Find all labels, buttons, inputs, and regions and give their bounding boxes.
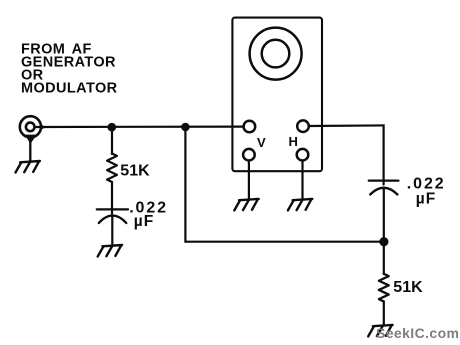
node: junction J-C (C2/R2): [379, 237, 388, 246]
label: .022 uF (C2): [407, 175, 446, 207]
wire: V ground terminal to ground: [248, 161, 250, 200]
svg-text:51K: 51K: [120, 162, 150, 179]
terminal: V ground: [243, 149, 255, 161]
wire: junction to R2: [383, 242, 385, 274]
terminal: H ground: [297, 149, 309, 161]
wire: R1 to C1: [111, 182, 113, 214]
svg-text:µF: µF: [134, 213, 154, 230]
terminal: V input: [244, 121, 256, 133]
ground below V terminal: [234, 199, 258, 211]
label: .022 uF (C1): [129, 200, 168, 231]
svg-text:µF: µF: [416, 191, 436, 208]
CRT screen outer circle: [250, 28, 302, 80]
wire: junction to R1: [111, 127, 113, 154]
wire: C2 to junction: [383, 189, 385, 242]
ground below R2: [368, 325, 392, 337]
wire: jack to scope V terminal: [35, 125, 244, 128]
resistor R1: [107, 154, 117, 183]
ground below input jack: [16, 161, 40, 173]
svg-text:51K: 51K: [393, 279, 423, 296]
capacitor C1: [97, 209, 128, 223]
ground below H terminal: [288, 199, 312, 211]
wire: C1 to ground: [111, 217, 113, 245]
wire: H terminal right and down to C2: [309, 125, 384, 184]
ground below C1: [98, 245, 122, 257]
annotation: FROM AF GENERATOR OR MODULATOR: [21, 41, 118, 96]
capacitor C2: [369, 181, 399, 195]
wire: jack to ground below: [29, 141, 31, 161]
resistor R2: [379, 274, 389, 302]
node: junction J-B (scope H feed branch): [181, 123, 190, 132]
wire: H ground terminal to ground: [301, 161, 303, 200]
wire: R2 to ground: [383, 302, 385, 325]
node: junction J-A (R1 branch): [108, 123, 117, 132]
terminal: H input: [297, 120, 309, 132]
svg-text:MODULATOR: MODULATOR: [21, 80, 118, 96]
CRT screen inner circle: [262, 40, 290, 68]
svg-text:SeekIC.com: SeekIC.com: [376, 325, 459, 341]
connector J1 input jack: [20, 116, 47, 144]
wire: junction down and right to C2/R2 node: [185, 127, 384, 242]
svg-text:H: H: [289, 134, 298, 149]
svg-text:V: V: [257, 135, 266, 150]
oscilloscope box U1: [232, 18, 322, 172]
